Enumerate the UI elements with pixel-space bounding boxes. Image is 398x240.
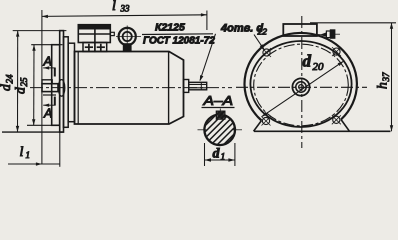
dimension l1 extension right	[59, 127, 61, 167]
eyebolt neck	[123, 44, 131, 52]
section plane mark top	[54, 68, 56, 77]
dimension l1 line	[8, 163, 60, 165]
shaft	[42, 84, 58, 92]
rear shaft collar	[184, 80, 189, 93]
hub inner circle	[299, 85, 304, 90]
stator left seam	[77, 52, 79, 125]
leader to hole	[254, 35, 264, 50]
bolt hole top-right	[332, 47, 341, 56]
dimension l33 line	[42, 15, 207, 17]
grounding bolt	[320, 32, 327, 37]
hub outer circle	[292, 78, 309, 95]
svg-text:l: l	[20, 145, 24, 160]
svg-text:24: 24	[5, 74, 15, 84]
dimension d24 extension bottom	[2, 131, 63, 133]
terminal box (end view)	[283, 24, 317, 36]
eyebolt ring	[119, 28, 136, 45]
eyebolt crosshair	[116, 36, 141, 38]
flange disk d24	[60, 31, 64, 133]
svg-text:К2125: К2125	[155, 22, 185, 34]
dimension h37 line	[391, 23, 393, 132]
svg-text:d: d	[213, 147, 221, 162]
dimension d25 line	[33, 45, 35, 126]
dimension l33 extension line left	[41, 10, 43, 164]
shaft fillet boss	[58, 80, 64, 97]
dimension d25 extension top	[31, 44, 62, 46]
dimension d24 extension top	[13, 30, 67, 32]
svg-text:d: d	[303, 52, 312, 71]
shaft lower edge line	[43, 94, 56, 96]
centerline of motor axis	[30, 87, 232, 89]
section plane mark bottom	[54, 97, 56, 106]
bolt circle	[254, 44, 349, 126]
label d24	[0, 74, 15, 91]
section center ticks	[198, 129, 207, 131]
svg-text:А: А	[43, 55, 52, 69]
bolt hole bottom-left	[262, 117, 271, 126]
terminal box lid band	[78, 25, 110, 29]
end view vertical centerline	[301, 16, 303, 148]
terminal screw pad left	[83, 43, 95, 52]
svg-text:1: 1	[26, 150, 31, 160]
terminal box	[78, 25, 110, 43]
label d25	[13, 77, 30, 94]
svg-text:d: d	[13, 87, 28, 94]
dimension h37 extension top	[310, 22, 396, 24]
foot chamfer right	[341, 120, 350, 132]
terminal screw pad right	[95, 43, 107, 52]
motor body	[75, 52, 184, 125]
svg-text:ГОСТ 12081-72: ГОСТ 12081-72	[143, 36, 215, 47]
svg-text:А: А	[43, 107, 52, 121]
section circle	[204, 115, 235, 146]
terminal box divider	[94, 25, 96, 43]
base line	[254, 130, 391, 132]
flange circle	[250, 41, 351, 127]
foot chamfer left	[254, 121, 262, 132]
flange spigot d25	[52, 45, 60, 126]
svg-text:37: 37	[381, 72, 391, 83]
dimension d25 extension bottom	[27, 124, 60, 126]
leader to shaft end	[200, 34, 216, 81]
fraction line	[142, 33, 213, 36]
dimension d1 line	[205, 159, 235, 161]
svg-text:А–А: А–А	[202, 93, 233, 108]
end shield seam	[168, 52, 170, 125]
terminal box side stub	[110, 32, 114, 35]
section hatch	[196, 106, 243, 153]
dimension d1 extensions	[204, 143, 206, 166]
hub middle circle	[296, 82, 306, 92]
dimension d24 line	[17, 31, 19, 132]
svg-text:l: l	[112, 0, 116, 14]
end view horizontal centerline	[236, 86, 367, 88]
flange step A	[64, 37, 69, 128]
svg-text:h: h	[375, 82, 390, 89]
bolt hole bottom-right	[332, 115, 341, 124]
housing outer circle	[244, 33, 356, 121]
dimension d20 line	[262, 61, 344, 116]
dimension l33 extension line right	[206, 11, 208, 31]
svg-text:22: 22	[257, 27, 268, 37]
svg-text:20: 20	[313, 61, 325, 73]
section key	[216, 111, 224, 119]
rear shaft stub	[189, 82, 207, 90]
bolt hole top-left	[262, 48, 271, 57]
svg-text:1: 1	[221, 153, 226, 163]
flange step B	[68, 43, 74, 122]
stub keyway end	[200, 82, 202, 90]
terminal box mid line	[78, 33, 110, 35]
svg-text:d: d	[0, 84, 13, 91]
svg-text:33: 33	[120, 3, 131, 13]
label h37	[375, 72, 392, 89]
svg-text:25: 25	[19, 77, 29, 87]
shaft key (side view)	[42, 80, 52, 84]
